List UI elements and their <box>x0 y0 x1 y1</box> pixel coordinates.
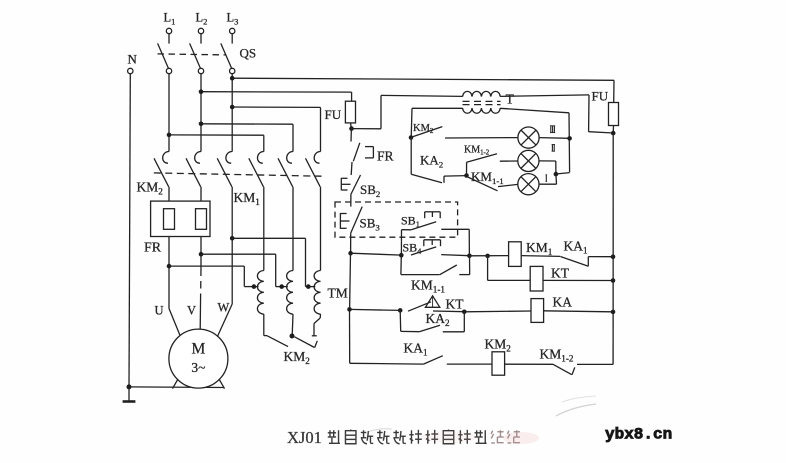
svg-text:ybx8.cn: ybx8.cn <box>605 426 672 444</box>
svg-text:QS: QS <box>240 46 257 61</box>
svg-text:KT: KT <box>446 297 465 312</box>
svg-text:W: W <box>218 301 230 315</box>
svg-text:KM1-2: KM1-2 <box>464 145 490 157</box>
svg-text:KA2: KA2 <box>420 153 443 170</box>
svg-text:XJ01: XJ01 <box>287 428 322 447</box>
svg-text:SB4: SB4 <box>403 241 422 257</box>
svg-text:KM1-1: KM1-1 <box>471 169 504 186</box>
svg-text:KA1: KA1 <box>404 341 429 358</box>
svg-text:V: V <box>187 304 196 318</box>
svg-text:KA: KA <box>553 295 573 310</box>
svg-text:KM1-1: KM1-1 <box>411 278 445 295</box>
svg-text:N: N <box>128 52 138 67</box>
svg-text:KA2: KA2 <box>426 311 451 328</box>
svg-text:KA1: KA1 <box>564 239 589 256</box>
svg-text:FR: FR <box>377 149 394 164</box>
svg-text:FU: FU <box>592 89 609 104</box>
svg-text:KM1: KM1 <box>234 190 261 207</box>
svg-text:FU: FU <box>325 107 342 122</box>
svg-text:SB3: SB3 <box>360 216 381 233</box>
svg-text:L3: L3 <box>227 11 239 27</box>
svg-text:KT: KT <box>551 266 570 281</box>
svg-text:T: T <box>506 93 515 108</box>
svg-text:KM2: KM2 <box>485 337 512 354</box>
svg-text:L2: L2 <box>196 11 208 27</box>
svg-text:SB1: SB1 <box>401 214 420 230</box>
svg-text:TM: TM <box>328 286 348 301</box>
svg-text:KM1: KM1 <box>526 240 553 257</box>
svg-text:FR: FR <box>144 241 162 256</box>
svg-text:KM2: KM2 <box>284 349 311 366</box>
svg-text:3~: 3~ <box>191 360 205 375</box>
svg-text:U: U <box>155 304 164 318</box>
svg-text:KM2: KM2 <box>137 180 164 197</box>
svg-text:KM1-2: KM1-2 <box>540 347 574 364</box>
svg-text:KM2: KM2 <box>413 123 434 135</box>
svg-text:M: M <box>192 341 206 358</box>
svg-text:L1: L1 <box>164 11 176 27</box>
svg-text:SB2: SB2 <box>360 182 380 199</box>
